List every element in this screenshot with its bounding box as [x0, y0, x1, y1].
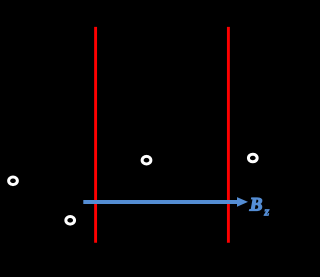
left conductor (red vertical line): [94, 27, 97, 243]
right conductor (red vertical line): [227, 27, 230, 243]
field-out-of-page symbol (white ring, centre): [142, 156, 151, 164]
Bz field arrow head (blue): [237, 197, 248, 207]
svg-text:B: B: [249, 195, 263, 216]
svg-text:z: z: [263, 205, 269, 219]
field-out-of-page symbol (white ring, far left): [9, 177, 18, 185]
Bz field arrow shaft (blue): [83, 200, 238, 204]
field-out-of-page symbol (white ring, right): [248, 154, 257, 162]
field-out-of-page symbol (white ring, lower left): [66, 217, 75, 225]
